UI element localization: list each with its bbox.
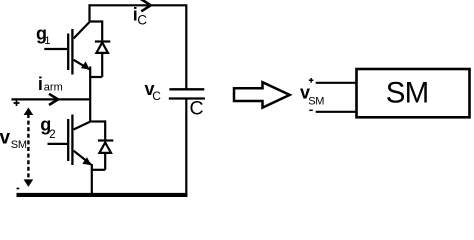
svg-text:i: i [38, 74, 43, 94]
svg-text:arm: arm [44, 82, 63, 94]
svg-text:C: C [137, 12, 147, 27]
svg-text:v: v [0, 128, 11, 149]
svg-text:SM: SM [308, 95, 324, 107]
svg-text:C: C [190, 98, 204, 120]
svg-text:SM: SM [11, 139, 27, 151]
svg-text:2: 2 [49, 129, 55, 141]
svg-text:C: C [152, 89, 161, 103]
svg-text:SM: SM [386, 77, 429, 110]
svg-text:1: 1 [44, 35, 50, 47]
